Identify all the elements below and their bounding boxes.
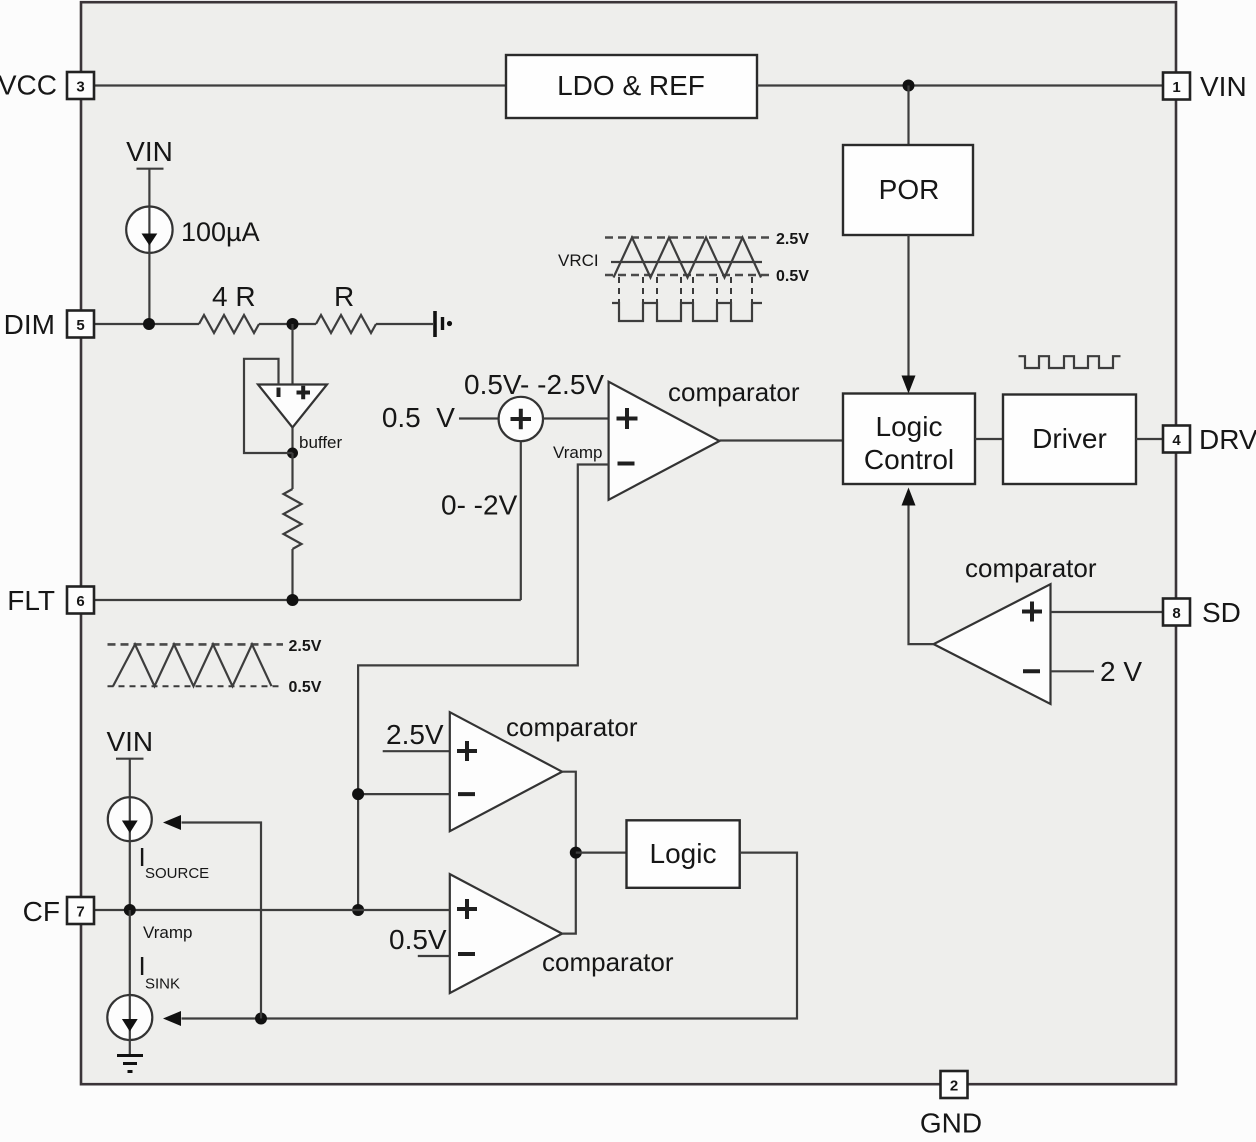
svg-text:0.5V: 0.5V <box>389 924 447 955</box>
wire Logic Control to Driver <box>975 438 1003 440</box>
block Logic Control <box>843 394 975 485</box>
svg-text:comparator: comparator <box>542 947 674 977</box>
wire POR to Logic Control (arrow down) <box>902 235 916 394</box>
svg-text:Driver: Driver <box>1032 423 1107 454</box>
wire bus to Logic <box>576 851 627 853</box>
node junction Vramp at CF rail <box>352 904 364 916</box>
node junction on VIN rail <box>903 80 915 92</box>
wire SD comparator output to Logic Control (arrow up) <box>902 488 934 645</box>
node VIN supply label (CF section) <box>106 726 153 759</box>
node junction on return path <box>255 1013 267 1025</box>
svg-text:VIN: VIN <box>126 136 173 167</box>
wire branch to I SOURCE <box>182 823 262 1019</box>
node junction DIM/current source <box>143 318 155 330</box>
waveform ramp sketch (FLT) <box>108 638 322 696</box>
node 0.5 V reference label <box>382 402 455 433</box>
block LDO & REF <box>506 55 757 118</box>
svg-text:comparator: comparator <box>668 377 800 407</box>
wire VIN to I SOURCE <box>129 759 131 798</box>
wire DIM pin to resistor 4R <box>94 323 199 325</box>
resistor R <box>316 281 376 333</box>
node junction CF rail at sources <box>124 904 136 916</box>
svg-text:DRV: DRV <box>1199 424 1256 455</box>
pin 3 VCC <box>0 70 94 101</box>
op-amp comparator (SD, points left) <box>934 553 1097 704</box>
wire comparator outputs bus <box>562 772 576 934</box>
wire 4R to R <box>259 323 316 325</box>
svg-text:100µA: 100µA <box>181 217 260 247</box>
op-amp comparator (2.5V upper) <box>450 712 638 831</box>
svg-text:R: R <box>334 281 354 312</box>
svg-text:1: 1 <box>1172 79 1180 96</box>
waveform clock sketch above Driver <box>1019 356 1121 368</box>
pin 7 CF <box>23 896 94 927</box>
pin 5 DIM <box>4 309 94 340</box>
wire junction to POR <box>907 86 909 146</box>
arrow into I SOURCE source <box>163 815 181 830</box>
svg-text:5: 5 <box>76 317 84 334</box>
resistor 4R <box>199 281 259 333</box>
svg-text:VCC: VCC <box>0 70 57 101</box>
block Driver <box>1003 395 1136 485</box>
svg-text:Control: Control <box>864 444 954 475</box>
svg-text:4: 4 <box>1172 432 1181 449</box>
svg-text:2.5V: 2.5V <box>386 719 444 750</box>
wire R to open terminal <box>376 323 433 325</box>
wire resistor to FLT rail <box>291 549 293 600</box>
svg-text:0.5 V: 0.5 V <box>382 402 455 433</box>
wire current source to DIM rail <box>148 253 150 324</box>
wire Vramp to upper comparator - input <box>358 793 450 795</box>
wire Driver to DRV pin <box>1136 438 1163 440</box>
wire buffer output <box>291 428 293 454</box>
wire CF pin rail <box>94 909 450 911</box>
svg-text:2 V: 2 V <box>1100 656 1142 687</box>
svg-text:comparator: comparator <box>506 712 638 742</box>
op-amp buffer <box>258 385 343 453</box>
node junction outputs bus <box>570 847 582 859</box>
svg-text:8: 8 <box>1172 605 1180 622</box>
block Logic <box>627 820 740 888</box>
svg-text:VIN: VIN <box>1200 71 1247 102</box>
svg-text:4 R: 4 R <box>212 281 256 312</box>
node 2 V reference <box>1051 656 1143 687</box>
resistor (vertical, to FLT) <box>284 489 302 549</box>
arrow into I SINK source <box>163 1011 181 1026</box>
wire LDO & REF to VIN pin <box>757 84 1163 86</box>
svg-text:SOURCE: SOURCE <box>145 865 209 882</box>
wire FLT rail up to summing node <box>520 441 522 600</box>
svg-text:Logic: Logic <box>876 411 943 442</box>
svg-text:0.5V: 0.5V <box>289 679 322 696</box>
svg-text:comparator: comparator <box>965 553 1097 583</box>
summing node <box>441 369 604 521</box>
svg-text:6: 6 <box>76 593 84 610</box>
wire I SINK to ground <box>129 1040 131 1054</box>
wire FLT pin rail <box>94 599 521 601</box>
svg-text:Vramp: Vramp <box>143 923 192 942</box>
wire SD pin to comparator + <box>1051 611 1164 613</box>
svg-text:LDO & REF: LDO & REF <box>557 70 705 101</box>
svg-text:7: 7 <box>76 904 84 921</box>
svg-text:GND: GND <box>920 1108 982 1139</box>
svg-text:FLT: FLT <box>7 585 55 616</box>
wire summing node to comparator + <box>543 417 609 419</box>
svg-text:DIM: DIM <box>4 309 55 340</box>
node VIN supply label (DIM section) <box>126 136 173 169</box>
svg-text:2.5V: 2.5V <box>289 638 322 655</box>
node junction Vramp at - input <box>352 788 364 800</box>
wire feedback loop <box>244 359 293 453</box>
svg-text:0.5V- -2.5V: 0.5V- -2.5V <box>464 369 604 400</box>
svg-text:3: 3 <box>76 79 84 96</box>
wire I SOURCE to CF rail <box>129 841 131 910</box>
node Vramp label (CF) <box>143 923 192 942</box>
wire Vramp to comparator - input <box>358 465 608 911</box>
block POR <box>843 145 973 235</box>
current source 100uA <box>126 207 259 254</box>
svg-text:0.5V: 0.5V <box>776 268 809 285</box>
svg-text:Logic: Logic <box>650 838 717 869</box>
svg-text:Vramp: Vramp <box>553 443 602 462</box>
wire VCC to LDO & REF <box>94 84 506 86</box>
wire CF rail to I SINK <box>129 910 131 995</box>
pin 6 FLT <box>7 585 94 616</box>
svg-text:2: 2 <box>950 1078 958 1095</box>
current source I SINK <box>107 951 180 1040</box>
pin 2 GND <box>920 1071 982 1139</box>
wire VIN to current source <box>148 169 150 207</box>
wire junction to buffer + input <box>291 324 293 384</box>
op-amp comparator (0.5V lower) <box>450 874 674 993</box>
current source I SOURCE <box>108 797 209 882</box>
wire Logic output return path <box>182 853 798 1019</box>
ground <box>117 1056 143 1072</box>
pin 1 VIN <box>1163 71 1247 102</box>
pin 4 DRV <box>1163 424 1256 455</box>
node 2.5V reference (upper comparator) <box>383 719 450 751</box>
svg-text:SINK: SINK <box>145 976 180 993</box>
svg-text:POR: POR <box>879 174 940 205</box>
node buffer output junction <box>287 448 298 459</box>
wire 0.5V to summing node <box>459 417 499 419</box>
svg-text:0- -2V: 0- -2V <box>441 490 518 521</box>
node junction between 4R and R <box>287 318 299 330</box>
waveform VRCI ramp/comparator sketch <box>558 231 809 322</box>
op-amp comparator (main PWM) <box>553 377 800 500</box>
svg-text:VIN: VIN <box>106 726 153 757</box>
svg-text:SD: SD <box>1202 597 1241 628</box>
svg-text:2.5V: 2.5V <box>776 231 809 248</box>
node 0.5V reference (lower comparator) <box>389 924 450 956</box>
pin 8 SD <box>1163 597 1241 628</box>
svg-text:CF: CF <box>23 896 60 927</box>
node junction on FLT rail <box>287 594 299 606</box>
wire buffer output to resistor <box>291 453 293 489</box>
svg-text:VRCI: VRCI <box>558 251 599 270</box>
open terminal marks <box>435 311 452 337</box>
wire comparator output to Logic Control <box>720 439 844 441</box>
svg-text:buffer: buffer <box>299 433 343 452</box>
